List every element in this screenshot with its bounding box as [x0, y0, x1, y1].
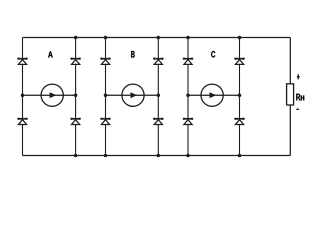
node B4 (bottom bus junction)	[157, 154, 161, 158]
label + (load polarity)	[297, 74, 300, 79]
diode VD4 (cell A, x=75.6, bottom)	[70, 118, 81, 125]
wire branch A right vertical	[75, 38, 77, 156]
label cell C	[211, 51, 215, 58]
wire branch A left vertical	[22, 38, 24, 156]
node M4 (mid rail junction)	[157, 93, 161, 97]
node M3 (mid rail junction)	[104, 93, 108, 97]
node T5 (top bus junction)	[186, 36, 190, 40]
diode VD6 (cell B, x=105.5, bottom)	[100, 118, 111, 125]
label cell A	[48, 51, 53, 57]
node B5 (bottom bus junction)	[186, 154, 190, 158]
wire bottom bus	[23, 155, 291, 157]
diode VD12 (cell C, x=239.5, bottom)	[234, 118, 245, 125]
diode VD5 (cell B, x=105.5, top)	[100, 58, 111, 65]
diode VD8 (cell B, x=158.3, bottom)	[153, 118, 164, 125]
wire mid rail cell A	[23, 94, 76, 96]
wire mid rail cell C	[188, 94, 240, 96]
diode VD9 (cell C, x=188.0, top)	[183, 58, 194, 65]
node T4 (top bus junction)	[157, 36, 161, 40]
current source I2 (cell B)	[122, 84, 144, 106]
current source I1 (cell A)	[41, 84, 63, 106]
node T6 (top bus junction)	[238, 36, 242, 40]
node M2 (mid rail junction)	[74, 93, 78, 97]
diode VD10 (cell C, x=188.0, bottom)	[183, 118, 194, 125]
wire top bus	[23, 37, 291, 39]
current source I3 (cell C)	[201, 84, 223, 106]
node B6 (bottom bus junction)	[238, 154, 242, 158]
node T3 (top bus junction)	[104, 36, 108, 40]
wire right edge (load branch)	[289, 38, 291, 156]
diode VD11 (cell C, x=239.5, top)	[234, 58, 245, 65]
label cell B	[131, 51, 135, 58]
label RH value	[296, 94, 304, 101]
node M5 (mid rail junction)	[186, 93, 190, 97]
wire branch C left vertical	[187, 38, 189, 156]
node M1 (mid rail junction)	[21, 93, 25, 97]
node M6 (mid rail junction)	[238, 93, 242, 97]
wire mid rail cell B	[106, 94, 159, 96]
node B3 (bottom bus junction)	[104, 154, 108, 158]
resistor RH (load)	[287, 84, 294, 105]
diode VD1 (cell A, x=22.5, top)	[17, 58, 28, 65]
wire branch B left vertical	[105, 38, 107, 156]
diode VD2 (cell A, x=22.5, bottom)	[17, 118, 28, 125]
diode VD7 (cell B, x=158.3, top)	[153, 58, 164, 65]
wire branch C right vertical	[239, 38, 241, 156]
wire branch B right vertical	[157, 38, 159, 156]
node T2 (top bus junction)	[74, 36, 78, 40]
diode VD3 (cell A, x=75.6, top)	[70, 58, 81, 65]
label - (load polarity)	[296, 108, 299, 110]
node B2 (bottom bus junction)	[74, 154, 78, 158]
